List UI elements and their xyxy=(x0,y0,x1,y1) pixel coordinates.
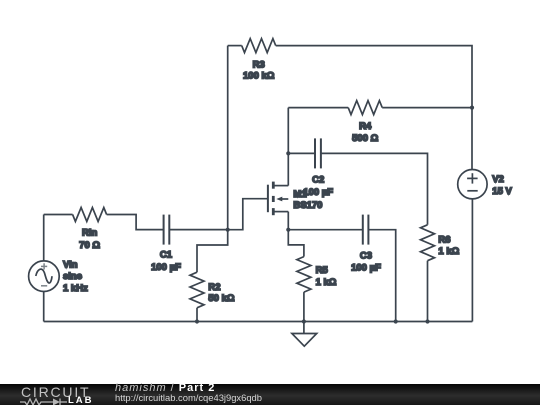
wire: source down xyxy=(287,212,289,230)
node V+ junction dot at R4/V2 xyxy=(470,106,474,110)
svg-text:R2: R2 xyxy=(208,282,220,293)
wire: R3 left vertical to gate node xyxy=(227,46,229,230)
wire: R2 jog xyxy=(197,230,228,273)
node gate junction dot xyxy=(226,228,230,232)
svg-text:1 kHz: 1 kHz xyxy=(63,283,88,294)
svg-text:sine: sine xyxy=(63,271,82,282)
svg-text:100 µF: 100 µF xyxy=(351,263,381,274)
svg-text:R6: R6 xyxy=(438,234,450,245)
wire: R3 to V+ corner xyxy=(276,46,472,108)
svg-text:Rin: Rin xyxy=(82,228,98,239)
node rail dot R6 xyxy=(425,319,429,323)
node rail/ground dot xyxy=(302,319,306,323)
svg-text:C1: C1 xyxy=(160,250,173,261)
wire: gate jog xyxy=(228,199,268,230)
node rail dot R2 xyxy=(195,319,199,323)
resistor R6 xyxy=(421,225,435,261)
svg-text:1 kΩ: 1 kΩ xyxy=(438,246,459,257)
capacitor C3 xyxy=(288,229,363,231)
logo resistor xyxy=(20,399,53,405)
svg-text:R3: R3 xyxy=(253,60,265,71)
svg-text:100 µF: 100 µF xyxy=(151,262,181,273)
logo diode xyxy=(53,399,60,405)
svg-text:100 µF: 100 µF xyxy=(303,187,333,198)
resistor R5 xyxy=(297,257,311,293)
capacitor C2 xyxy=(288,152,315,154)
svg-text:1 kΩ: 1 kΩ xyxy=(316,277,337,288)
source Vin top wire xyxy=(43,215,45,261)
svg-text:70 Ω: 70 Ω xyxy=(79,240,100,251)
svg-text:R5: R5 xyxy=(316,265,329,276)
node source junction dot xyxy=(286,228,290,232)
wire: V2 bottom to rail xyxy=(471,199,473,322)
CircuitLab logo xyxy=(21,385,90,399)
footer text xyxy=(115,383,215,393)
capacitor C1 xyxy=(163,215,165,245)
svg-text:500 Ω: 500 Ω xyxy=(352,133,378,144)
footer bar xyxy=(0,384,540,405)
resistor Rin xyxy=(44,214,73,216)
voltage source V2 xyxy=(458,170,487,199)
svg-text:Vin: Vin xyxy=(63,259,78,270)
resistor R3 xyxy=(228,45,242,47)
resistor R4 xyxy=(288,107,348,109)
node drain/C2 junction dot xyxy=(286,151,290,155)
wire: bottom rail xyxy=(44,321,473,323)
svg-text:C3: C3 xyxy=(360,251,372,262)
svg-text:BS170: BS170 xyxy=(293,200,322,211)
svg-text:C2: C2 xyxy=(312,174,324,185)
svg-text:100 kΩ: 100 kΩ xyxy=(243,71,275,82)
wire: R5 jog xyxy=(288,230,304,257)
svg-text:R4: R4 xyxy=(359,121,372,132)
ground xyxy=(303,322,305,334)
resistor R2 xyxy=(190,272,204,308)
transistor M1 BS170 xyxy=(267,185,269,213)
svg-text:V2: V2 xyxy=(492,174,504,185)
wire: drain up xyxy=(287,108,289,186)
wire: Vin bottom to rail xyxy=(43,292,45,322)
svg-text:50 kΩ: 50 kΩ xyxy=(208,293,234,304)
source Vin xyxy=(29,261,60,292)
node rail dot C3 xyxy=(394,319,398,323)
wire: junction down to V2 top xyxy=(471,108,473,170)
svg-text:15 V: 15 V xyxy=(492,186,512,197)
